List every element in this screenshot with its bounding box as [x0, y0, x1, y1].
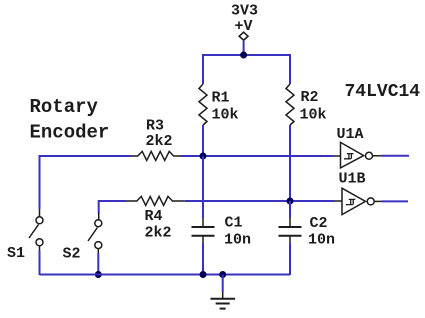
wire R2 bottom lead: [289, 125, 291, 201]
wire U1A output lead: [373, 155, 382, 157]
U1B output bubble: [367, 198, 374, 205]
wire bottom rail: [40, 274, 291, 276]
resistor R4: [126, 196, 185, 205]
resistor R2: [286, 84, 294, 125]
svg-text:R3: R3: [146, 118, 164, 135]
svg-text:2k2: 2k2: [146, 133, 173, 150]
wire ground lead: [222, 275, 224, 293]
capacitor C2: [279, 218, 302, 243]
svg-text:R2: R2: [301, 89, 319, 106]
wire U1A input: [333, 155, 341, 157]
wire U1B output: [381, 200, 408, 202]
wire U1B input: [334, 200, 342, 202]
node ground junction: [219, 271, 226, 278]
svg-text:10n: 10n: [308, 231, 335, 248]
wire node A to C1: [202, 156, 204, 218]
wire R1 bottom lead: [202, 125, 204, 157]
node S2 junction: [95, 271, 102, 278]
node power junction: [240, 52, 247, 59]
ground: [211, 292, 236, 309]
svg-text:S2: S2: [63, 246, 81, 263]
svg-text:10k: 10k: [212, 107, 239, 124]
wire R2 top lead: [289, 54, 291, 84]
svg-text:R4: R4: [145, 208, 163, 225]
svg-text:S1: S1: [7, 245, 25, 262]
svg-text:C2: C2: [310, 215, 328, 232]
wire U1A output: [381, 155, 409, 157]
op-amp U1A inverter triangle: [341, 142, 364, 168]
wire node B rail: [185, 200, 334, 202]
wire left branch to S1: [39, 155, 41, 209]
svg-text:10n: 10n: [224, 231, 251, 248]
op-amp U1B inverter triangle: [342, 188, 365, 214]
wire power stub: [243, 41, 245, 55]
resistor R1: [199, 84, 207, 125]
svg-text:Rotary: Rotary: [30, 96, 99, 118]
svg-text:U1B: U1B: [339, 171, 366, 188]
U1A output bubble: [366, 152, 373, 159]
svg-text:R1: R1: [212, 90, 230, 107]
svg-text:Encoder: Encoder: [30, 121, 110, 143]
U1B schmitt hysteresis symbol: [346, 199, 356, 204]
svg-text:2k2: 2k2: [145, 225, 172, 242]
wire S1 to bottom rail: [39, 251, 41, 276]
wire R1 top lead: [202, 54, 204, 84]
wire node A rail right: [181, 155, 333, 157]
wire C1 to bottom rail: [202, 243, 204, 275]
resistor R3: [131, 151, 181, 160]
wire top rail: [203, 54, 290, 56]
svg-text:C1: C1: [225, 215, 243, 232]
wire U1B output lead: [374, 200, 381, 202]
wire S2 to bottom rail: [97, 253, 99, 275]
svg-text:10k: 10k: [300, 107, 327, 124]
U1A schmitt hysteresis symbol: [344, 154, 354, 159]
node C1 bottom junction: [200, 271, 207, 278]
wire S2 stub top: [98, 213, 100, 220]
svg-text:74LVC14: 74LVC14: [345, 82, 421, 102]
svg-text:U1A: U1A: [337, 126, 364, 143]
wire node B to C2: [289, 201, 291, 218]
wire node A rail left: [40, 155, 132, 157]
node A junction: [200, 153, 207, 160]
capacitor C1: [192, 218, 215, 243]
wire S2 riser: [99, 201, 126, 214]
wire C2 to bottom rail: [289, 243, 291, 275]
node B junction: [287, 198, 294, 205]
switch S1: [29, 209, 43, 251]
switch S2: [88, 220, 102, 253]
power symbol +V diamond: [239, 32, 248, 40]
